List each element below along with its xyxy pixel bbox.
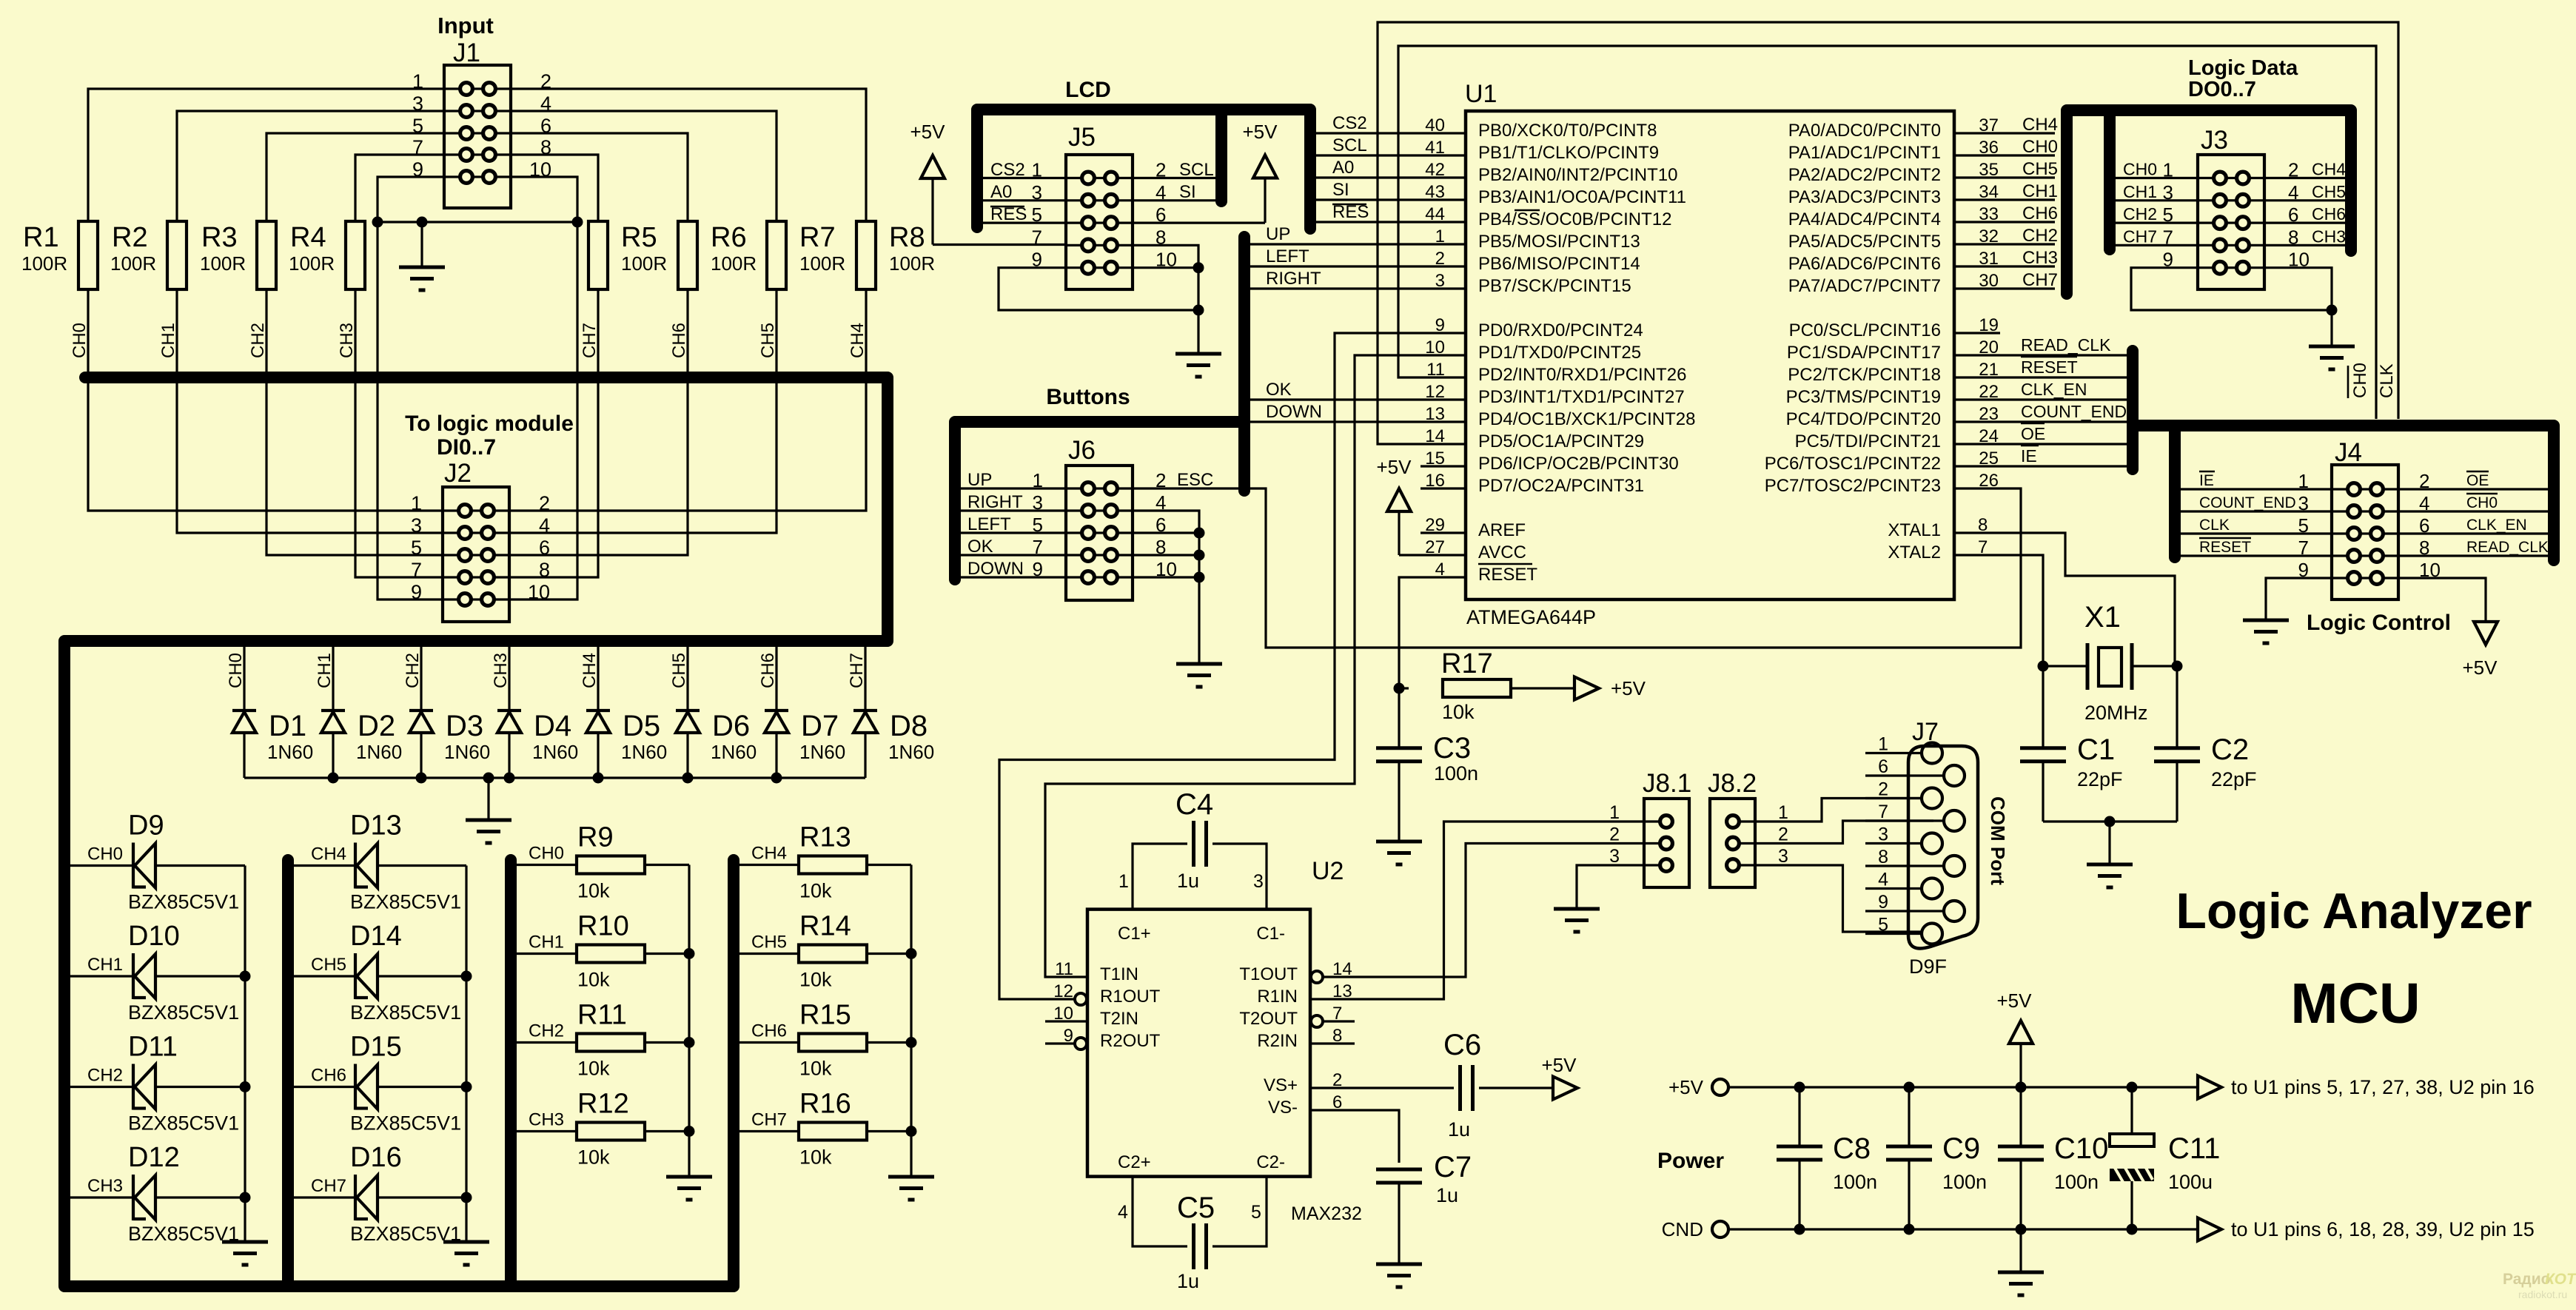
IC U2 box (1087, 910, 1310, 1177)
wire C3 to ground (1398, 762, 1400, 842)
wire J3 right pin2 (2264, 177, 2345, 179)
svg-text:CH7: CH7 (751, 1110, 787, 1130)
svg-text:1N60: 1N60 (799, 741, 845, 763)
svg-text:10k: 10k (799, 880, 832, 902)
junction diode rail (504, 773, 515, 784)
svg-text:CH5: CH5 (2022, 159, 2058, 179)
ground J4 (2243, 620, 2289, 643)
svg-text:RESET: RESET (1478, 565, 1537, 585)
capacitor C11 (2110, 1134, 2154, 1182)
svg-text:LCD: LCD (1065, 78, 1111, 102)
header To logic module (405, 412, 574, 460)
svg-text:C2: C2 (2211, 733, 2249, 766)
wire RESET to R17 (1399, 687, 1409, 689)
zener diode D15 (355, 1064, 378, 1110)
svg-text:CH3: CH3 (2022, 248, 2058, 268)
svg-text:C9: C9 (1942, 1132, 1980, 1165)
svg-text:CS2: CS2 (1332, 113, 1367, 133)
svg-text:R3: R3 (201, 222, 238, 253)
svg-text:4: 4 (1118, 1202, 1128, 1223)
junction (572, 217, 583, 228)
svg-text:T2IN: T2IN (1100, 1009, 1138, 1029)
wire D8 to rail (864, 733, 866, 778)
ground C7 (1376, 1264, 1422, 1287)
svg-text:CH5: CH5 (751, 933, 787, 953)
svg-text:КОТ: КОТ (2545, 1271, 2576, 1288)
wire RIGHT U1 (1250, 287, 1466, 289)
wire zener column 2 (465, 866, 467, 1243)
J4 label CLK (2199, 517, 2230, 534)
wire C11 top stem (2130, 1087, 2133, 1134)
J4 pin numbers (2298, 470, 2441, 581)
svg-text:9: 9 (1878, 892, 1888, 913)
wire D2 to rail (332, 733, 334, 778)
signal label RESET (2021, 357, 2078, 377)
junction (417, 217, 428, 228)
svg-text:100R: 100R (289, 252, 335, 275)
svg-text:PD2/INT0/RXD1/PCINT26: PD2/INT0/RXD1/PCINT26 (1478, 365, 1686, 385)
svg-text:J8.2: J8.2 (1708, 769, 1757, 798)
J6 signal ESC (1177, 470, 1213, 490)
svg-text:CH2: CH2 (529, 1021, 564, 1041)
wire J6 pin10 (1133, 576, 1199, 578)
svg-text:radiokot.ru: radiokot.ru (2518, 1289, 2567, 1300)
net label CH7 at D8 (847, 653, 867, 688)
svg-text:RIGHT: RIGHT (967, 492, 1023, 512)
net label CH2 (248, 323, 268, 358)
svg-text:CH6: CH6 (751, 1021, 787, 1041)
svg-text:10: 10 (528, 581, 550, 603)
connector J3 (2198, 126, 2264, 289)
svg-text:BZX85C5V1: BZX85C5V1 (128, 1001, 239, 1024)
wire D5 to rail (597, 733, 599, 778)
wire CH0 to D1 (243, 641, 245, 709)
label R11 (577, 1000, 627, 1080)
stub R2OUT (1045, 1042, 1075, 1044)
svg-text:CH4: CH4 (2312, 160, 2346, 179)
wire diode rail (244, 776, 865, 779)
svg-text:T2OUT: T2OUT (1239, 1009, 1298, 1029)
stub U1 AREF pin29 (1421, 531, 1466, 534)
connector J8.1 (1643, 769, 1691, 887)
svg-text:100R: 100R (799, 252, 845, 275)
J4 label IE (2199, 471, 2215, 489)
svg-text:CH1: CH1 (2022, 181, 2058, 201)
wire J1 to R6 top (511, 133, 688, 221)
wire ESC net to U1 pin26 (1250, 488, 2021, 648)
wire CH0 to D9 (70, 864, 133, 867)
net label CLK (2377, 363, 2397, 398)
svg-text:R9: R9 (577, 822, 614, 853)
svg-text:3: 3 (1778, 846, 1788, 867)
wire SI J5 (1133, 199, 1215, 201)
wire CH5 to D6 (686, 641, 688, 709)
svg-text:20MHz: 20MHz (2084, 702, 2148, 724)
svg-text:+5V: +5V (2463, 656, 2498, 679)
svg-text:CH1: CH1 (87, 955, 123, 975)
net label CH5 (751, 933, 787, 953)
svg-text:PC6/TOSC1/PCINT22: PC6/TOSC1/PCINT22 (1765, 454, 1941, 474)
net label CH2 at D3 (403, 653, 423, 688)
label D1 (267, 710, 313, 763)
svg-text:CH0: CH0 (2123, 160, 2157, 179)
wire CH7 to D16 (294, 1196, 355, 1198)
header Input (437, 13, 494, 38)
label D6 (711, 710, 757, 763)
svg-text:10k: 10k (577, 1058, 610, 1080)
svg-text:PC5/TDI/PCINT21: PC5/TDI/PCINT21 (1795, 431, 1941, 451)
svg-text:D10: D10 (128, 921, 180, 952)
svg-text:OK: OK (967, 537, 993, 557)
wire J1 pin3 to R2 (177, 111, 444, 221)
label C4 (1118, 788, 1264, 892)
wire C7 to gnd (1398, 1183, 1400, 1264)
label C10 (2054, 1132, 2108, 1193)
svg-text:22pF: 22pF (2077, 768, 2123, 790)
svg-text:C2+: C2+ (1118, 1152, 1151, 1172)
signal label RIGHT (1266, 269, 1321, 289)
svg-text:CLK_EN: CLK_EN (2466, 517, 2527, 534)
wire CH5 to R14 (739, 953, 799, 955)
svg-text:RESET: RESET (2199, 539, 2251, 556)
wire J5 pin8 (1133, 245, 1198, 354)
wire X1 left (2043, 665, 2087, 667)
label C11 (2168, 1132, 2220, 1193)
net label CH6 at D7 (758, 653, 778, 688)
capacitor C1 (2020, 748, 2066, 762)
net label CH4 at D5 (580, 653, 600, 688)
diode D6 (676, 711, 700, 733)
svg-text:PA7/ADC7/PCINT7: PA7/ADC7/PCINT7 (1788, 276, 1941, 296)
svg-text:SI: SI (1332, 180, 1349, 200)
connector J1 (444, 38, 511, 208)
wire J3 left pin5 (2116, 222, 2198, 224)
wire PA4 to bus (1954, 221, 2055, 223)
signal label CS2 (1332, 113, 1367, 133)
wire J6 pin6 (1133, 531, 1199, 534)
svg-text:R15: R15 (799, 1000, 851, 1031)
svg-text:R1: R1 (23, 222, 59, 253)
svg-text:10k: 10k (799, 969, 832, 991)
svg-text:VS+: VS+ (1264, 1075, 1298, 1095)
svg-text:C3: C3 (1433, 732, 1471, 765)
svg-text:10k: 10k (577, 969, 610, 991)
svg-text:3: 3 (1253, 871, 1264, 892)
svg-text:D3: D3 (446, 710, 483, 742)
svg-text:7: 7 (1032, 226, 1042, 248)
svg-text:D2: D2 (358, 710, 395, 742)
wire J6 pin8 (1133, 554, 1199, 556)
junction (1794, 1082, 1805, 1093)
svg-text:PB1/T1/CLKO/PCINT9: PB1/T1/CLKO/PCINT9 (1478, 143, 1659, 163)
svg-text:CH0: CH0 (87, 844, 123, 864)
svg-text:R7: R7 (799, 222, 836, 253)
wire R17 to +5V (1511, 687, 1574, 689)
svg-text:R2IN: R2IN (1257, 1031, 1298, 1051)
zener diode D11 (133, 1064, 155, 1110)
signal label CLK_EN (2021, 380, 2087, 399)
junction diode rail (771, 773, 782, 784)
wire net CH4 R to J2 (511, 289, 866, 511)
bus stub col D13 (282, 860, 294, 1286)
label R2 (110, 222, 156, 275)
capacitor C4 (1194, 821, 1207, 867)
stub R2IN (1310, 1042, 1355, 1044)
svg-text:1: 1 (1778, 802, 1788, 823)
header Buttons (1046, 385, 1130, 409)
diode D3 (409, 711, 433, 733)
wire SI U1 (1316, 198, 1466, 201)
svg-text:CH7: CH7 (2123, 226, 2157, 246)
capacitor C9 (1886, 1146, 1932, 1160)
svg-text:PD3/INT1/TXD1/PCINT27: PD3/INT1/TXD1/PCINT27 (1478, 387, 1685, 407)
svg-text:3: 3 (411, 514, 422, 537)
svg-text:1N60: 1N60 (888, 741, 934, 763)
svg-text:CH3: CH3 (337, 323, 357, 358)
zener diode D13 (355, 843, 378, 889)
svg-text:R4: R4 (290, 222, 326, 253)
wire net CH0bar (1398, 46, 2376, 419)
J5 signal CS2 (990, 160, 1025, 180)
label C7 (1434, 1151, 1472, 1206)
svg-text:3: 3 (1435, 271, 1445, 291)
wire D10 to column (155, 975, 245, 977)
wire J5 pin9 loop (999, 268, 1198, 310)
wire PA0 to bus (1954, 132, 2055, 134)
junction (372, 217, 383, 228)
label R4 (289, 222, 335, 275)
wire AVCC (1399, 554, 1466, 556)
junction (240, 971, 251, 982)
net label CH0bar (2348, 363, 2370, 398)
svg-text:AREF: AREF (1478, 520, 1526, 540)
svg-text:PD7/OC2A/PCINT31: PD7/OC2A/PCINT31 (1478, 476, 1644, 496)
wire CH4 to D5 (597, 641, 599, 709)
svg-text:PA5/ADC5/PCINT5: PA5/ADC5/PCINT5 (1788, 232, 1941, 252)
svg-text:X1: X1 (2084, 601, 2121, 634)
svg-text:CH6: CH6 (2312, 204, 2346, 224)
svg-text:C6: C6 (1443, 1029, 1481, 1061)
wire D6 to rail (686, 733, 688, 778)
svg-text:IE: IE (2199, 472, 2214, 489)
diode D1 (232, 711, 256, 733)
svg-text:CLK_EN: CLK_EN (2021, 380, 2087, 399)
wire VS- to C7 (1310, 1110, 1399, 1163)
svg-text:XTAL1: XTAL1 (1888, 520, 1941, 540)
wire PA7 to bus (1954, 287, 2055, 289)
label C3 (1433, 732, 1478, 785)
svg-text:CH4: CH4 (311, 844, 346, 864)
wire J5 pin6 to +5V (1133, 222, 1265, 224)
label D12 (128, 1142, 239, 1245)
svg-text:CH6: CH6 (2022, 204, 2058, 224)
wire J1 pin7 to R4 (355, 155, 444, 221)
J3 label CH4 (2312, 160, 2346, 179)
junction (906, 1037, 917, 1048)
wire C4 left (1133, 844, 1187, 910)
svg-text:XTAL2: XTAL2 (1888, 543, 1941, 562)
svg-text:C1: C1 (2077, 733, 2115, 766)
J3 label CH1 (2123, 182, 2157, 201)
svg-text:9: 9 (411, 581, 422, 603)
J4 label COUNT_END (2199, 494, 2296, 511)
wire J1 pin10 to ground node (511, 177, 577, 222)
wire J1 gnd to J2 pin10 (511, 222, 577, 599)
svg-text:PB6/MISO/PCINT14: PB6/MISO/PCINT14 (1478, 254, 1640, 274)
wire C5 right (1212, 1176, 1267, 1246)
ground zener column 2 (443, 1242, 489, 1265)
header Power (1657, 1149, 1724, 1173)
svg-text:R2: R2 (112, 222, 148, 253)
svg-text:6: 6 (1878, 756, 1888, 777)
net label CH3 (529, 1110, 564, 1130)
wire OK to J6 (961, 554, 1066, 556)
wire CH1 to R10 (517, 953, 577, 955)
svg-text:J5: J5 (1068, 123, 1096, 152)
net label CH3 (87, 1176, 123, 1196)
wire J4 pin9 gnd (2266, 578, 2332, 620)
label C6 (1443, 1029, 1481, 1141)
zener diode D16 (355, 1175, 378, 1220)
header Logic Control (2307, 611, 2451, 635)
arrow to U1 gnd (2198, 1218, 2535, 1241)
diode D8 (853, 711, 877, 733)
svg-text:11: 11 (1055, 959, 1073, 979)
junction diode rail (328, 773, 339, 784)
svg-text:CH3: CH3 (2312, 226, 2346, 246)
wire CH6 to D15 (294, 1086, 355, 1088)
svg-text:DOWN: DOWN (1266, 402, 1322, 422)
wire J4 right pin4 (2398, 510, 2548, 512)
svg-text:PC4/TDO/PCINT20: PC4/TDO/PCINT20 (1786, 409, 1941, 429)
net label CH0 (70, 323, 90, 358)
svg-text:CH5: CH5 (758, 323, 778, 358)
svg-text:D9F: D9F (1909, 955, 1947, 978)
connector J8.2 (1708, 769, 1757, 887)
wire R16 to column (867, 1130, 911, 1132)
+5V supply J5 pin6 (1243, 121, 1278, 223)
net label CH0 at D1 (226, 653, 246, 688)
bus Logic Data inner stub (2104, 110, 2116, 249)
arrow to U1 vcc (2198, 1076, 2535, 1099)
svg-text:PA6/ADC6/PCINT6: PA6/ADC6/PCINT6 (1788, 254, 1941, 274)
svg-text:CH2: CH2 (87, 1066, 123, 1086)
label D4 (532, 710, 578, 763)
svg-text:40: 40 (1425, 115, 1445, 135)
label R5 (621, 222, 667, 275)
wire COUNT_END U1 to bus (1954, 420, 2127, 423)
wire J4 right pin6 (2398, 532, 2548, 534)
svg-text:U2: U2 (1312, 857, 1344, 885)
wire CND rail (1728, 1228, 2198, 1230)
bubble R1OUT (1075, 993, 1087, 1005)
wire TXD0 net (1045, 355, 1466, 977)
junction (461, 1081, 472, 1092)
wire READ_CLK U1 to bus (1954, 354, 2127, 356)
wire C9 bottom stem (1908, 1160, 1910, 1229)
junction (906, 948, 917, 959)
label R3 (200, 222, 246, 275)
wire J4 left pin5 (2181, 532, 2332, 534)
+5V supply C6 (1542, 1054, 1578, 1100)
svg-text:to U1 pins 5, 17, 27, 38, U2 p: to U1 pins 5, 17, 27, 38, U2 pin 16 (2231, 1076, 2535, 1098)
wire C8 bottom stem (1798, 1160, 1800, 1229)
svg-text:C10: C10 (2054, 1132, 2108, 1165)
svg-text:Buttons: Buttons (1046, 385, 1130, 409)
svg-text:D5: D5 (623, 710, 660, 742)
wire D9 to column (155, 864, 245, 867)
wire RIGHT to J6 (961, 509, 1066, 511)
svg-text:CH4: CH4 (2022, 115, 2058, 135)
net label CH6 (311, 1066, 346, 1086)
wire D4 to rail (508, 733, 510, 778)
diode D4 (497, 711, 521, 733)
stub U1 pin19 (1954, 332, 2000, 334)
svg-text:R8: R8 (889, 222, 925, 253)
wire J4 left pin1 (2181, 488, 2332, 490)
svg-text:100n: 100n (2054, 1171, 2099, 1193)
wire J8.2 pin2 to J7 pin7 (1755, 821, 1933, 844)
svg-text:D1: D1 (269, 710, 306, 742)
svg-text:CH2: CH2 (2123, 204, 2157, 224)
wire SCL U1 (1316, 154, 1466, 156)
svg-text:PB7/SCK/PCINT15: PB7/SCK/PCINT15 (1478, 276, 1631, 296)
svg-text:PC3/TMS/PCINT19: PC3/TMS/PCINT19 (1786, 387, 1941, 407)
signal label UP (1266, 224, 1290, 244)
junction (2038, 661, 2049, 672)
diode D2 (321, 711, 345, 733)
svg-text:100R: 100R (200, 252, 246, 275)
resistor R8 (856, 221, 876, 289)
bubble T1OUT (1311, 971, 1323, 983)
svg-text:CH3: CH3 (529, 1110, 564, 1130)
wire J4 pin10 +5V (2398, 578, 2486, 622)
svg-text:+5V: +5V (1668, 1076, 1704, 1098)
svg-text:100R: 100R (110, 252, 156, 275)
net label CH1 (529, 933, 564, 953)
J4 label OE (2466, 471, 2489, 489)
wire D11 to column (155, 1086, 245, 1088)
J1 pin numbers (412, 70, 551, 181)
net label CH1 (87, 955, 123, 975)
junction (461, 971, 472, 982)
svg-text:D8: D8 (890, 710, 928, 742)
svg-text:PA3/ADC3/PCINT3: PA3/ADC3/PCINT3 (1788, 187, 1941, 207)
svg-text:T1OUT: T1OUT (1239, 964, 1298, 984)
svg-text:J1: J1 (453, 38, 480, 67)
signal label LEFT (1266, 246, 1309, 266)
label R6 (711, 222, 757, 275)
CH net labels at U1 PA (2022, 115, 2058, 290)
junction (2327, 305, 2338, 316)
svg-text:CH7: CH7 (847, 653, 867, 688)
svg-text:42: 42 (1425, 160, 1445, 180)
svg-text:1N60: 1N60 (532, 741, 578, 763)
wire C8 top stem (1798, 1087, 1800, 1146)
label U2 (1312, 857, 1344, 885)
J5 signal A0 (990, 182, 1012, 202)
junction (684, 1037, 695, 1048)
junction (906, 1126, 917, 1137)
svg-text:1u: 1u (1177, 870, 1199, 892)
stub U1 pin15 (1421, 465, 1466, 467)
wire net CH5 R to J2 (511, 289, 777, 533)
svg-text:5: 5 (1251, 1202, 1261, 1223)
svg-text:CH0: CH0 (2350, 363, 2370, 398)
wire D1 to rail (243, 733, 245, 778)
svg-text:BZX85C5V1: BZX85C5V1 (128, 891, 239, 913)
wire R11 to column (645, 1041, 689, 1044)
